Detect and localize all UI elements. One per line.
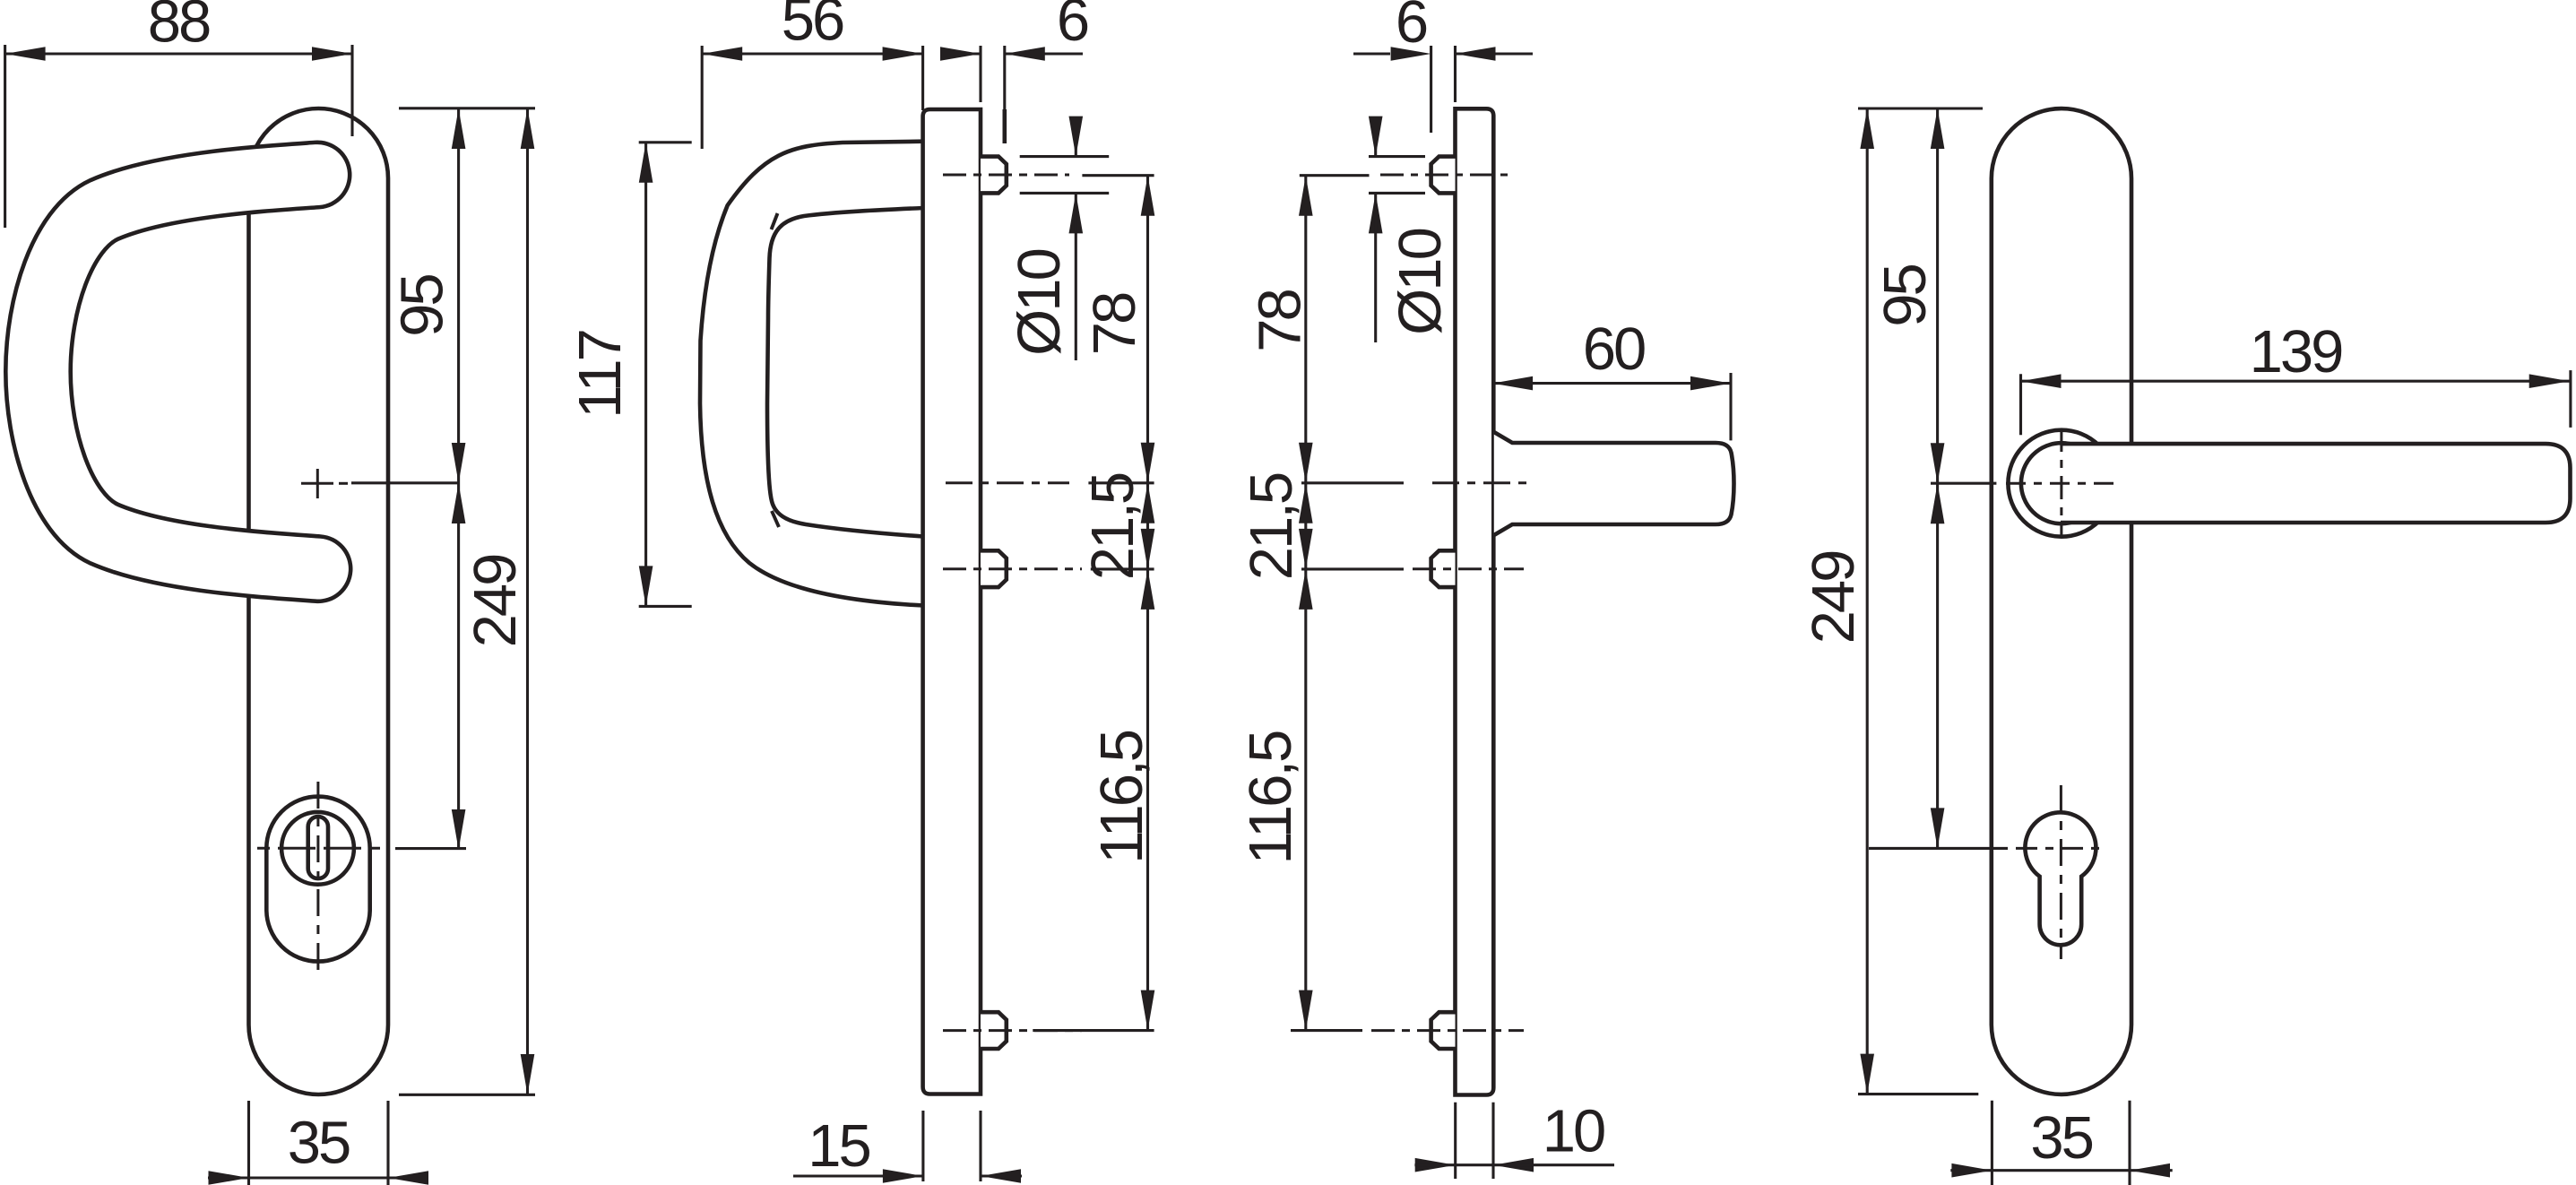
dimension 6 line with arrows view3 xyxy=(1353,47,1533,61)
svg-text:56: 56 xyxy=(782,0,843,54)
extension line at screw S5 center view3 xyxy=(1301,567,1404,570)
svg-text:15: 15 xyxy=(808,1112,869,1180)
cylinder vertical centerline of PL1 xyxy=(316,782,319,975)
top extension line of PL1 height dims xyxy=(399,107,535,109)
svg-text:78: 78 xyxy=(1081,293,1148,355)
dimension 10 line with arrows view3 xyxy=(0,0,1614,1172)
dimension 35 line with arrows of PL2 xyxy=(1950,1163,2172,1178)
dimension 88 line with arrows xyxy=(5,47,352,61)
tube end tick marks on inner contour xyxy=(772,213,780,527)
fixing screw head S6 bottom (view3) xyxy=(1431,1012,1456,1049)
dimension 88 extension lines xyxy=(5,45,352,228)
dimension 116,5 line with arrows view2 xyxy=(1141,569,1155,1031)
dimension text 35 of PL1 xyxy=(288,1110,350,1177)
dimension 60 extension line right xyxy=(1729,373,1732,440)
dimension text diameter-10 view3 xyxy=(1387,229,1454,334)
centerline of screw S1 xyxy=(943,174,1069,177)
lever hub horizontal centerline xyxy=(1931,482,2115,485)
dimension diameter-10 extension lines view3 xyxy=(1369,157,1425,194)
fixing screw head S3 bottom (side view right) xyxy=(981,1012,1007,1049)
dimension 139 extension lines xyxy=(2021,370,2571,435)
dimension 21,5 line with arrows view2 xyxy=(1141,483,1155,569)
svg-text:249: 249 xyxy=(462,555,529,648)
svg-text:Ø10: Ø10 xyxy=(1006,249,1073,355)
bottom extension line of PL2 height dims xyxy=(1858,1093,1978,1095)
cylinder core circle in PL1 xyxy=(281,812,354,885)
dimension 21,5 line with arrows view3 xyxy=(1299,483,1313,569)
key slot in cylinder of PL1 xyxy=(308,817,328,878)
PZ hole horizontal centerline xyxy=(1869,847,2105,850)
PZ hole vertical centerline xyxy=(2060,785,2062,959)
pull handle side profile inner contour xyxy=(767,208,923,537)
centerline of screw S6 xyxy=(1371,1029,1524,1032)
svg-text:10: 10 xyxy=(1543,1097,1604,1164)
backplate rear face stub (6mm) side view xyxy=(1003,109,1007,143)
dimension text 95 xyxy=(388,275,455,337)
extension line at cylinder level view4 is merged with PZ centerline xyxy=(0,0,1,1)
oval cylinder hole cover in PL1 xyxy=(266,797,369,962)
dimension text 15 xyxy=(808,1112,869,1180)
fixing screw head S5 middle (view3) xyxy=(1431,550,1456,587)
cylinder horizontal centerline of PL1 xyxy=(257,847,466,850)
lever spindle stub (60mm) side view xyxy=(1494,432,1734,535)
extension line at screw S3 center view2 xyxy=(1033,1029,1154,1032)
dimension text 249 view4 xyxy=(1800,551,1867,644)
dimension text 95 view4 xyxy=(1871,265,1939,327)
svg-text:6: 6 xyxy=(1057,0,1088,54)
dimension 15 extension lines xyxy=(923,1111,981,1181)
bottom extension line of PL1 height dims xyxy=(399,1094,535,1096)
svg-text:60: 60 xyxy=(1583,316,1645,383)
centerline of screw S5 xyxy=(1413,567,1524,570)
dimension text 249 xyxy=(462,555,529,648)
dimension 92 (unlabelled) line with arrows view4 xyxy=(1931,483,1945,848)
lever hub neck circle xyxy=(2021,443,2102,523)
svg-text:95: 95 xyxy=(1871,265,1939,327)
dimension 35 extension lines of PL2 xyxy=(1992,1101,2130,1185)
fixing point cross centerline at 95 level of PL1 xyxy=(301,469,459,498)
dimension 35 extension lines of PL1 xyxy=(249,1101,389,1185)
backplate PL1 (pull-handle side, front view 35x249) xyxy=(249,108,389,1094)
dimension text 10 view3 xyxy=(1543,1097,1604,1164)
fixing screw head S1 top (side view right) xyxy=(981,157,1007,194)
centerline of screw S2 xyxy=(943,567,1082,570)
svg-text:21,5: 21,5 xyxy=(1238,473,1305,580)
dimension 56 line with arrows xyxy=(702,47,922,61)
svg-text:249: 249 xyxy=(1800,551,1867,644)
dimension 10 extension lines view3 xyxy=(1456,1103,1493,1179)
dimension text diameter-10 view2 xyxy=(1006,249,1073,355)
centerline at handle fixing level view2 xyxy=(946,481,1069,484)
svg-text:95: 95 xyxy=(388,275,455,337)
dimension 15 line with arrows xyxy=(793,1169,1022,1183)
pull handle bow (front view) outline xyxy=(39,175,319,569)
dimension diameter-10 extension lines view2 xyxy=(1020,157,1110,194)
dimension 95 line with arrows view4 xyxy=(1931,108,1945,483)
svg-text:35: 35 xyxy=(288,1110,350,1177)
dimension text 116,5 view2 xyxy=(1088,731,1155,863)
svg-text:21,5: 21,5 xyxy=(1079,473,1146,580)
dimension text 56 xyxy=(782,0,843,54)
lever handle grip tube xyxy=(2061,444,2571,523)
extension line at screw S4 center view3 xyxy=(1300,174,1370,177)
dimension 60 line with arrows xyxy=(1492,376,1731,391)
lever hub rose outer circle xyxy=(2008,430,2114,537)
dimension text 139 xyxy=(2250,318,2343,385)
svg-text:6: 6 xyxy=(1396,0,1427,56)
fixing screw head S4 top (view3) xyxy=(1431,157,1456,194)
top extension line of PL2 height dims xyxy=(1858,107,1983,109)
backplate PL2 front view (35x249) xyxy=(1992,108,2131,1094)
extension line at screw S1 center view2 xyxy=(1082,174,1154,177)
fixing screw head S2 middle (side view right) xyxy=(981,550,1007,587)
extension line at screw S6 center view3 xyxy=(1291,1029,1362,1032)
svg-text:Ø10: Ø10 xyxy=(1387,229,1454,334)
centerline of screw S3 xyxy=(943,1029,1082,1032)
dimension text 60 xyxy=(1583,316,1645,383)
centerline of screw S4 xyxy=(1380,174,1515,177)
dimension 117 extension lines xyxy=(639,143,692,607)
dimension text 21,5 view2 xyxy=(1079,473,1146,580)
dimension 78 line with arrows view2 xyxy=(1141,176,1155,483)
svg-text:78: 78 xyxy=(1247,290,1314,352)
dimension diameter-10 arrows view2 xyxy=(1069,117,1084,360)
profile cylinder keyhole (PZ) in PL2 xyxy=(2025,812,2096,945)
handle shoe side profile (15mm) of PL1 xyxy=(923,109,981,1094)
centerline at spindle level view3 xyxy=(1432,481,1534,484)
dimension 249 line with arrows xyxy=(521,108,535,1094)
dimension 139 line with arrows xyxy=(2021,374,2570,388)
svg-text:35: 35 xyxy=(2030,1104,2092,1172)
svg-text:117: 117 xyxy=(566,331,634,419)
dimension text 78 view2 xyxy=(1081,293,1148,355)
dimension text 117 xyxy=(566,331,634,419)
dimension 56 extension line left xyxy=(701,46,704,149)
extension line at screw S2 center view2 xyxy=(1091,567,1154,570)
dimension 78 line with arrows view3 xyxy=(1299,176,1313,483)
dimension 6 line with arrows view2 xyxy=(940,47,1083,61)
svg-text:139: 139 xyxy=(2250,318,2343,385)
dimension 56 extension line right xyxy=(921,46,924,110)
dimension 117 line with arrows xyxy=(639,143,653,607)
dimension text 78 view3 xyxy=(1247,290,1314,352)
svg-text:88: 88 xyxy=(148,0,210,56)
dimension 92 (unlabelled) line with arrows xyxy=(452,483,466,850)
svg-text:116,5: 116,5 xyxy=(1237,731,1304,864)
dimension 95 line with arrows xyxy=(452,108,466,483)
svg-text:116,5: 116,5 xyxy=(1088,731,1155,863)
pull handle side profile outer contour xyxy=(700,142,923,606)
dimension 35 line with arrows of PL1 xyxy=(208,1171,428,1185)
backplate PL2 side profile (10mm) with rounded right corners xyxy=(1456,108,1494,1094)
dimension 116,5 line with arrows view3 xyxy=(1299,569,1313,1031)
dimension 249 line with arrows view4 xyxy=(1860,108,1874,1094)
dimension diameter-10 arrows view3 xyxy=(1369,117,1383,342)
dimension text 116,5 view3 xyxy=(1237,731,1304,864)
dimension text 88 xyxy=(148,0,210,56)
dimension text 6 view2 xyxy=(1057,0,1088,54)
dimension text 6 view3 xyxy=(1396,0,1427,56)
dimension 6 extension lines view2 xyxy=(981,46,1005,109)
extension line at spindle level view3 xyxy=(1301,481,1404,484)
lever hub vertical centerline xyxy=(2060,428,2062,537)
dimension text 21,5 view3 xyxy=(1238,473,1305,580)
dimension text 35 of PL2 xyxy=(2030,1104,2092,1172)
dimension 6 extension lines view3 xyxy=(1431,46,1456,133)
extension line at fixing level view2 xyxy=(1088,481,1154,484)
